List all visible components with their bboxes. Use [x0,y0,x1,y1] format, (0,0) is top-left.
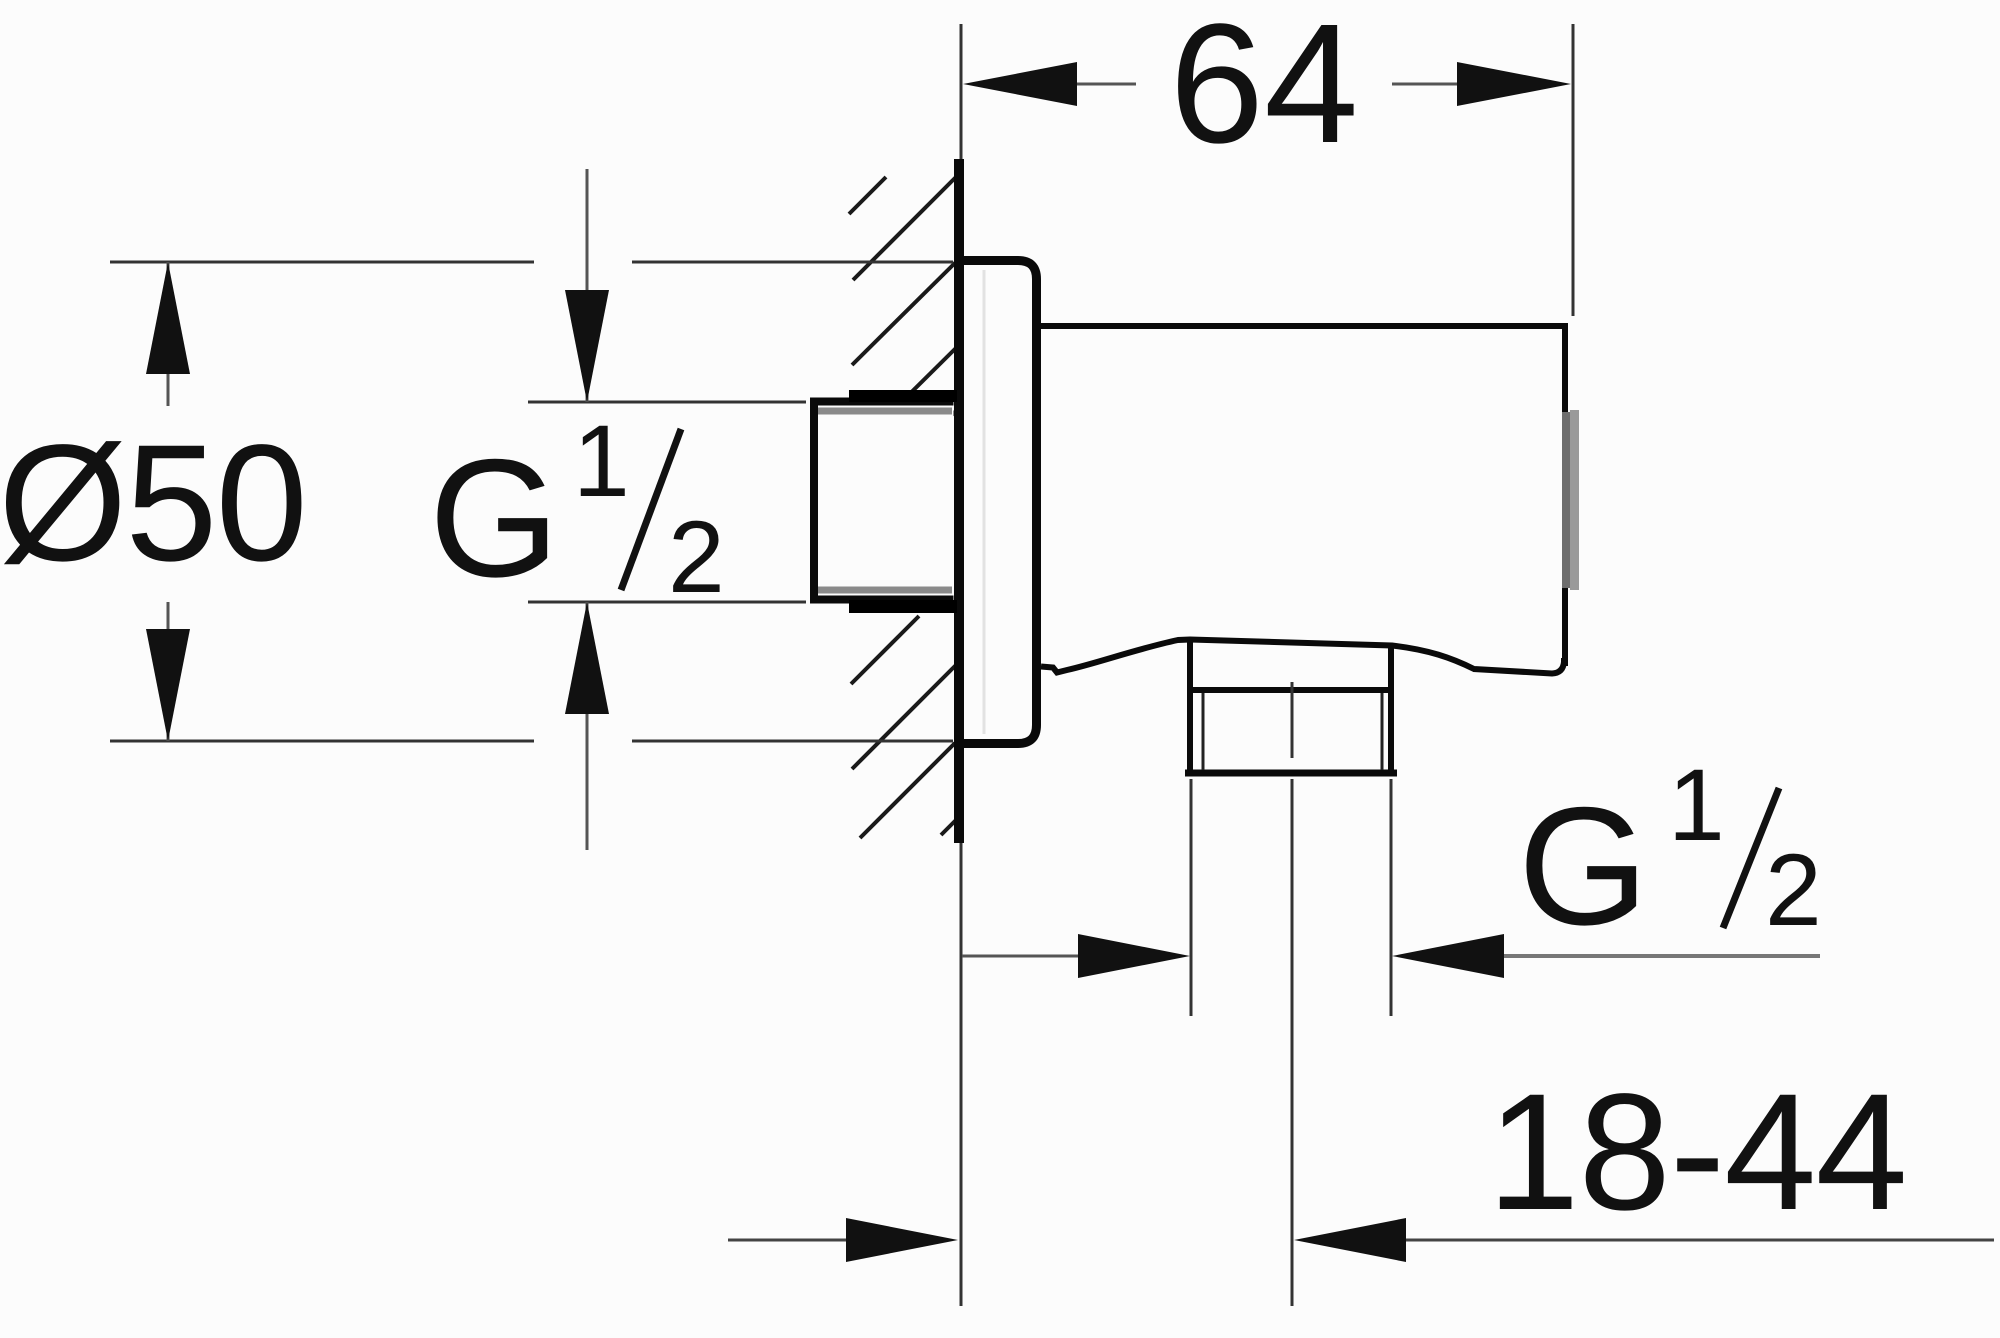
svg-text:1: 1 [573,404,630,518]
extension line D50 top [110,261,534,264]
wall line thick [954,159,964,843]
wall thread root line top (gray) [818,408,952,415]
svg-text:1: 1 [1668,748,1725,862]
outlet centerline [1291,682,1294,758]
outlet hex left edge [1187,641,1193,776]
wall thread root line bottom (gray) [818,587,952,594]
dimension line G1/2 outlet shafts [962,955,1082,958]
dimension line G1/2 wall upper [586,169,589,402]
dimension line G1/2 wall lower [586,602,589,850]
body top line [1041,323,1566,329]
dimension line D50 upper [167,262,170,406]
svg-text:G: G [1518,772,1649,960]
arrowhead D50 up [146,262,190,374]
outlet hex inner chamfer right [1381,693,1384,770]
svg-text:G: G [429,424,560,612]
svg-text:2: 2 [668,500,725,614]
arrowhead 18-44 right-pointing at wall [846,1218,958,1262]
arrowhead G1/2 wall up [565,602,609,714]
extension line 64 right [1572,24,1575,316]
arrowhead G1/2 outlet left-pointing [1392,934,1504,978]
wall thread nipple body [814,402,954,600]
svg-text:2: 2 [1765,833,1822,947]
svg-text:64: 64 [1169,0,1358,179]
arrowhead 18-44 left-pointing at centerline [1294,1218,1406,1262]
dimension line D50 lower [167,602,170,741]
wall thread crest bar top [849,390,957,402]
arrowhead G1/2 wall down [565,290,609,402]
label G1/2 outlet thread [1518,748,1822,960]
arrowhead G1/2 outlet right-pointing [1078,934,1190,978]
wall line thin lower [960,843,963,1306]
extension line 64 left (wall top thin) [960,24,963,159]
svg-text:Ø50: Ø50 [0,411,306,596]
escutcheon flange [957,261,1037,744]
label G1/2 wall thread [429,404,725,614]
outlet hex bottom line [1185,770,1397,777]
outlet hex right edge [1388,646,1394,776]
extension line D50 bottom [110,740,534,743]
body bottom contour [1041,640,1564,674]
extension line G1/2 wall top [528,401,806,404]
svg-text:18-44: 18-44 [1487,1060,1907,1245]
flange inner highlight [983,270,986,734]
dimension line 64 shafts [1075,83,1136,86]
body right edge recess overlay [1562,412,1570,588]
extension line G1/2 wall bottom [528,601,806,604]
wall thread crest bar bottom [849,600,957,613]
arrowhead D50 down [146,629,190,741]
arrowhead 64 right [1457,62,1571,106]
extension line outlet right [1390,779,1393,1016]
body right edge gray band [1570,410,1579,590]
dimension line 18-44 shafts [728,1239,850,1242]
outlet hex inner chamfer left [1202,693,1205,770]
outlet hex top line [1187,687,1394,693]
wall hatch strokes [849,176,957,838]
extension line outlet left [1190,779,1193,1016]
arrowhead 64 left [963,62,1077,106]
body right edge [1562,323,1568,666]
